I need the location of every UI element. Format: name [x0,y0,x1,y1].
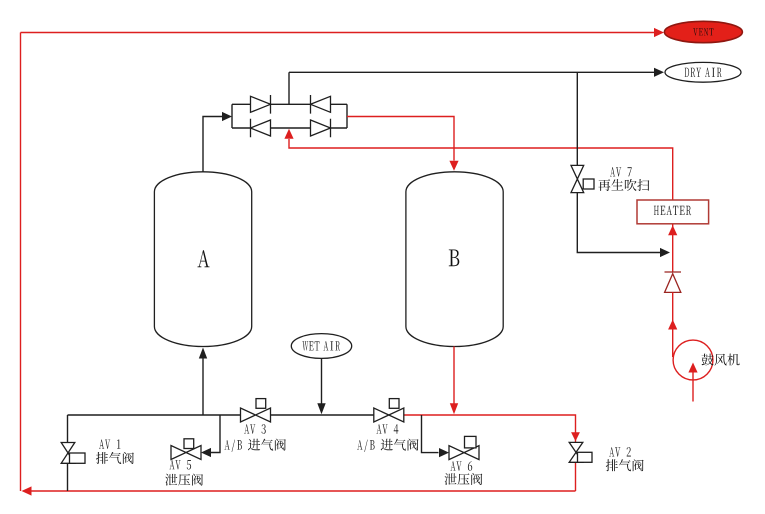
valve AV5 actuator [184,439,194,449]
arrowhead vessel B into pipe [450,403,458,414]
wire vessel B drain [453,346,455,404]
valve AV5 body [171,446,201,460]
check valve blower line [665,272,682,292]
label vessel A [198,250,210,267]
valve AV2 actuator [578,452,593,462]
outlet DRY AIR [665,62,741,82]
wire pipe down to AV1 [67,415,69,443]
wire AV2 to exhaust [575,462,577,491]
valve AV4 body [374,408,404,422]
wire red exhaust bottom [30,490,576,492]
wire red left riser [20,33,22,492]
label VENT [693,28,713,35]
arrowhead wet air into pipe [317,403,325,414]
wire manifold riser to dry air header [288,72,290,104]
label AV 1 [99,440,121,449]
valve AV3 body [241,408,271,422]
valve AV7 body [571,165,584,192]
label AV2 exhaust valve [606,459,644,471]
wire AV7 to regen line [577,193,660,253]
arrowhead into vessel A bottom [199,348,207,359]
arrowhead into heater bottom [668,225,677,235]
valve AV6 actuator [465,436,477,448]
check valve manifold top-left [251,95,271,114]
blower circle [673,340,713,380]
vessel B [406,172,503,347]
label HEATER [654,206,691,215]
wire blower discharge to heater [672,224,674,272]
arrowhead exhaust to riser [22,486,32,495]
wire blower inlet [692,372,694,402]
wire manifold bottom line [232,127,347,129]
arrowhead blower discharge [668,320,677,330]
arrowhead into vessel B top [449,161,458,171]
arrowhead into AV6 [439,448,449,457]
wire dry air header to AV7 [576,72,578,165]
check valve manifold bottom-right [311,119,331,138]
label vessel B [449,250,460,267]
label AV 6 [450,461,472,471]
wire bottom pipe red [404,415,576,442]
arrowhead blower inlet [688,363,697,373]
wire bottom pipe left [68,414,241,416]
arrowhead into DRY AIR [654,68,664,77]
heater HEATER [637,200,709,224]
wire vessel A inlet riser [202,358,204,416]
valve AV4 actuator [389,399,399,409]
vessel A [154,172,251,347]
label AV3 A/B inlet [224,439,286,452]
wire pipe down to AV5 [211,415,220,453]
wire manifold right edge [346,104,348,128]
wire check valve to blower [672,292,674,357]
valve AV6 body [449,446,479,460]
label AV 5 [169,460,191,470]
arrowhead into AV5 [201,448,211,457]
arrowhead into manifold left [222,112,232,121]
wire pipe down to AV6 [422,415,439,453]
arrowhead purge into regen line [660,248,670,257]
wire red vent header (top) [21,32,655,34]
arrowhead into manifold bottom [284,129,293,139]
label AV 7 [610,167,632,176]
wire red manifold to vessel B top [347,117,454,161]
label AV4 A/B inlet [357,439,419,452]
arrowhead into AV2 [571,432,580,441]
label regen purge [598,179,649,191]
wire red regen supply (heater to manifold) [289,139,673,200]
label AV 3 [244,424,266,434]
valve AV7 actuator [583,179,594,189]
outlet VENT [664,21,742,42]
valve AV2 body [569,442,583,462]
valve AV3 actuator [256,399,266,409]
wire dry air header [289,71,654,73]
wire manifold left edge [231,104,233,128]
label AV 2 [609,447,631,457]
label AV 4 [376,424,398,434]
label DRY AIR [685,68,722,77]
label AV1 exhaust valve [96,452,134,464]
wire vessel A outlet to manifold [203,117,223,172]
wire bottom pipe middle [271,414,374,416]
inlet WET AIR [291,334,351,359]
label WET AIR [302,341,340,350]
valve AV1 actuator [70,453,86,463]
check valve manifold top-right [311,95,331,114]
wire wet air inlet drop [321,358,323,404]
check valve manifold bottom-left [251,119,271,138]
label blower [702,354,740,366]
label AV6 relief valve [445,473,483,485]
arrowhead into VENT [654,28,664,37]
label AV5 relief valve [165,474,203,486]
valve AV1 body [61,443,75,464]
wire AV1 to exhaust [67,463,69,491]
wire manifold top line [232,103,347,105]
